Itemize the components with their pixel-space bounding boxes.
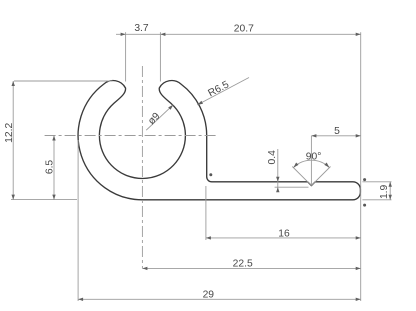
- node marker arm root: [209, 173, 212, 176]
- arrow 29 right: [356, 298, 361, 301]
- extension line profile bottom (12.2): [11, 199, 77, 201]
- arrow 16 left: [206, 236, 211, 239]
- extension line arm bottom (1.9): [362, 199, 391, 201]
- leader R6.5: [197, 78, 249, 105]
- dimension line 1.9: [389, 182, 391, 200]
- dimension line 3.7 / 20.7 (top): [116, 33, 361, 35]
- extension line notch center (5): [310, 136, 312, 185]
- svg-text:0.4: 0.4: [267, 150, 278, 165]
- arrow 6.5 top: [52, 136, 55, 141]
- arrow 90 right: [324, 163, 329, 168]
- arrow 22.5 left: [142, 267, 147, 270]
- extension line slot right: [159, 32, 161, 81]
- dimension line 5: [311, 135, 360, 137]
- dimension line 16: [206, 237, 361, 239]
- arrow 29 left: [78, 298, 83, 301]
- svg-text:22.5: 22.5: [233, 259, 253, 270]
- svg-text:29: 29: [203, 290, 215, 301]
- arrow 20.7 right: [356, 33, 361, 36]
- arrow 12.2 bottom: [12, 195, 15, 200]
- arrow 0.4 top: [276, 177, 279, 182]
- arrow R6.5: [197, 101, 203, 105]
- dimension line 29: [78, 298, 361, 300]
- arrow 12.2 top: [12, 81, 15, 86]
- arrow 6.5 bottom: [52, 195, 55, 200]
- arrow 1.9 bottom: [389, 195, 392, 200]
- svg-text:1.9: 1.9: [379, 184, 390, 199]
- svg-text:5: 5: [334, 126, 340, 137]
- svg-text:ø9: ø9: [146, 111, 162, 127]
- arrow 1.9 top: [389, 182, 392, 187]
- centerline vertical (through bore center, also 22.5 extension): [141, 66, 143, 268]
- dimension line 12.2: [12, 81, 14, 200]
- svg-text:12.2: 12.2: [4, 123, 15, 143]
- extension line profile top (12.2): [14, 80, 113, 82]
- node marker arm end bottom: [363, 204, 366, 207]
- arrow 3.7/20.7 middle: [160, 33, 165, 36]
- leader ø9: [146, 105, 173, 131]
- svg-text:6.5: 6.5: [45, 160, 56, 175]
- svg-text:16: 16: [278, 228, 290, 239]
- svg-text:3.7: 3.7: [134, 23, 149, 34]
- arrow 22.5 right: [356, 267, 361, 270]
- extension line arm root (16): [205, 186, 207, 240]
- dimension line 6.5: [53, 136, 55, 200]
- svg-text:20.7: 20.7: [234, 23, 254, 34]
- arrow ø9: [168, 105, 173, 110]
- svg-text:R6.5: R6.5: [207, 79, 232, 99]
- extension line slot left: [125, 32, 127, 81]
- centerline horizontal (through bore center): [45, 135, 218, 137]
- svg-text:90°: 90°: [306, 151, 322, 162]
- node marker arm end top: [363, 178, 366, 181]
- arrow 90 left: [293, 163, 298, 168]
- extension line arm top (1.9): [362, 181, 391, 183]
- angular dimension 90 radial right: [311, 167, 330, 186]
- dimension line 0.4: [277, 149, 279, 192]
- arrow 0.4 bottom: [276, 187, 279, 192]
- arrow 5 right: [356, 134, 361, 137]
- extension line right end (shared by 20.7 / 5 / 16 / 22.5 / 29): [360, 32, 362, 301]
- dimension line 22.5: [142, 267, 360, 269]
- extension line profile left (29): [77, 140, 79, 301]
- arrow 5 left: [311, 134, 316, 137]
- arrow 16 right: [356, 236, 361, 239]
- angular dimension 90 arc: [293, 160, 329, 167]
- arrow 3.7 left: [121, 33, 126, 36]
- profile outline (C-clip with flat arm, R6.5 outer, ø9 bore, 3.7 slot, V-notch arm): [78, 81, 360, 200]
- angular dimension 90 radial left: [292, 167, 311, 186]
- extension line notch tip (0.4): [275, 186, 309, 188]
